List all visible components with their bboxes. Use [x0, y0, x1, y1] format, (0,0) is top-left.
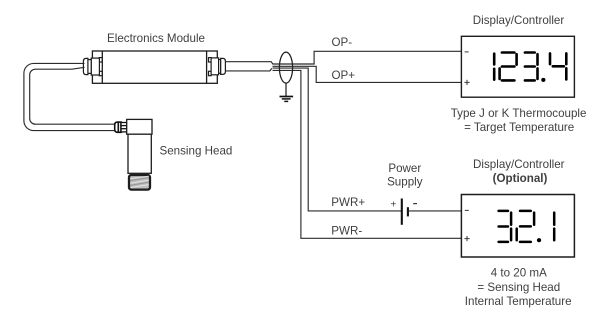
svg-text:+: +	[391, 200, 397, 211]
battery - polarity mark	[413, 203, 417, 205]
svg-text:Supply: Supply	[387, 176, 423, 189]
seven-segment reading 32.1	[499, 211, 555, 242]
svg-text:Type J or K Thermocouple: Type J or K Thermocouple	[451, 107, 587, 120]
svg-text:4 to 20 mA: 4 to 20 mA	[491, 267, 547, 280]
flexible cable from module left to sensing head (outer edge)	[24, 63, 115, 130]
top display/controller box	[461, 36, 574, 97]
digit 1	[493, 54, 496, 65]
svg-text:PWR+: PWR+	[331, 196, 365, 209]
decimal point	[537, 238, 541, 242]
ground symbol	[280, 97, 294, 102]
right cable-gland fitting of module	[209, 58, 226, 76]
digit 2	[502, 51, 515, 54]
bottom display - terminal	[465, 209, 469, 211]
thick cable from module right to shield (bottom edge)	[225, 68, 271, 71]
wire OP+ (thermocouple positive)	[273, 66, 462, 82]
decimal point	[541, 78, 545, 82]
svg-text:Electronics Module: Electronics Module	[107, 32, 205, 45]
flexible cable from module left to sensing head (inner edge)	[30, 67, 115, 124]
svg-text:(Optional): (Optional)	[493, 172, 548, 185]
sensing head top block	[127, 119, 152, 134]
digit 3	[525, 51, 535, 54]
wire PWR+ from battery to display	[409, 210, 462, 212]
wire OP- (thermocouple negative)	[273, 51, 462, 64]
seven-segment reading 123.4	[494, 53, 566, 81]
wire PWR-	[273, 70, 462, 238]
svg-text:= Target Temperature: = Target Temperature	[464, 121, 574, 134]
wire PWR+ from cable to battery	[273, 68, 402, 211]
sensing head right-angle connector nut	[115, 122, 121, 132]
svg-text:Internal Temperature: Internal Temperature	[465, 295, 572, 308]
svg-text:OP-: OP-	[332, 36, 353, 49]
sensing head body	[128, 134, 151, 173]
bottom display/controller box	[461, 195, 574, 258]
ground lead from shield	[285, 83, 287, 96]
battery positive plate	[401, 199, 403, 225]
sensing head tip (lens, hatched)	[129, 175, 150, 190]
top display - terminal	[465, 51, 469, 53]
svg-text:OP+: OP+	[332, 69, 356, 82]
digit 4	[549, 53, 552, 64]
svg-text:Sensing Head: Sensing Head	[160, 144, 233, 157]
thick cable from module right to shield (top edge)	[225, 62, 273, 65]
left cable-gland fitting of module	[83, 58, 102, 76]
top display + terminal	[464, 80, 469, 85]
electronics module body	[92, 51, 217, 83]
digit 2	[520, 210, 531, 213]
cable shield ellipse	[279, 52, 292, 83]
bottom display + terminal	[464, 236, 469, 241]
svg-text:= Sensing Head: = Sensing Head	[477, 281, 560, 294]
digit 3	[499, 210, 508, 213]
svg-text:PWR-: PWR-	[331, 225, 362, 238]
battery negative plate	[407, 207, 409, 216]
svg-text:Display/Controller: Display/Controller	[473, 158, 565, 171]
svg-text:Display/Controller: Display/Controller	[473, 14, 565, 27]
digit 1	[553, 213, 556, 225]
svg-text:Power: Power	[388, 162, 421, 175]
sensing head threaded neck	[121, 123, 127, 132]
